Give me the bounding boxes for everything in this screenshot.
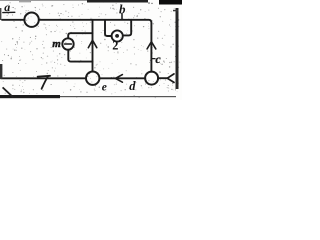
place 2 (circle with token) bbox=[112, 30, 123, 41]
svg-text:d: d bbox=[129, 79, 136, 93]
arrowhead up on c branch bbox=[147, 42, 156, 49]
arrowhead left pointing on d arc bbox=[115, 75, 122, 83]
wire bracket right of place 2 bbox=[123, 20, 131, 36]
wire m upper branch bbox=[68, 33, 92, 38]
svg-text:e: e bbox=[102, 81, 107, 93]
arrowhead left pointing at right end bbox=[167, 74, 174, 83]
place e (circle) bbox=[86, 72, 99, 85]
wire bottom rail middle segment bbox=[100, 77, 146, 79]
wire top rail left segment bbox=[2, 19, 24, 21]
wire top rail right segment with corner down to c branch bbox=[39, 20, 151, 72]
place c (bottom right circle) bbox=[145, 72, 158, 85]
svg-text:c: c bbox=[155, 52, 161, 66]
token dot in place 2 bbox=[115, 34, 119, 38]
place m (circle with minus) bbox=[62, 38, 73, 49]
wire bracket left of place 2 bbox=[105, 20, 112, 36]
label a underline bbox=[3, 11, 15, 13]
minus sign in place m bbox=[65, 43, 72, 45]
place a (circle) bbox=[24, 13, 38, 27]
wire bottom rail right segment bbox=[158, 77, 167, 79]
svg-text:a: a bbox=[4, 0, 10, 14]
wire e-to-b vertical branch bbox=[92, 20, 94, 72]
svg-text:2: 2 bbox=[112, 39, 118, 53]
wire bottom rail left segment bbox=[1, 77, 86, 79]
svg-text:m: m bbox=[52, 38, 61, 50]
label f bbox=[38, 75, 50, 78]
wire b tick bbox=[121, 14, 123, 20]
arrowhead up on e-b branch bbox=[88, 40, 97, 48]
wire m lower branch bbox=[68, 50, 92, 62]
label c tick bbox=[151, 58, 155, 60]
